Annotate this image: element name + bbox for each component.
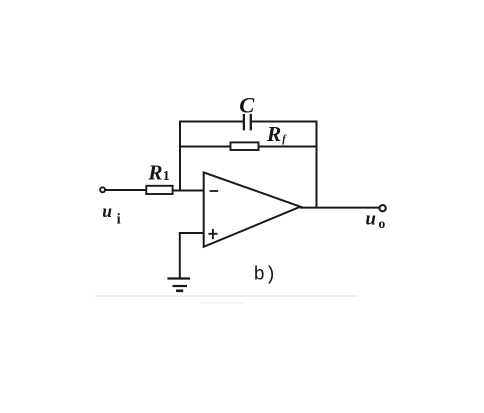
svg-text:o: o [379,216,386,231]
svg-text:C: C [239,93,255,118]
svg-text:b): b) [254,263,277,285]
svg-text:u: u [102,201,112,221]
svg-text:R: R [147,160,162,184]
svg-text:R: R [266,122,281,146]
svg-text:u: u [365,209,376,230]
svg-text:f: f [282,134,287,145]
svg-text:1: 1 [163,169,170,184]
svg-text:i: i [117,212,121,228]
